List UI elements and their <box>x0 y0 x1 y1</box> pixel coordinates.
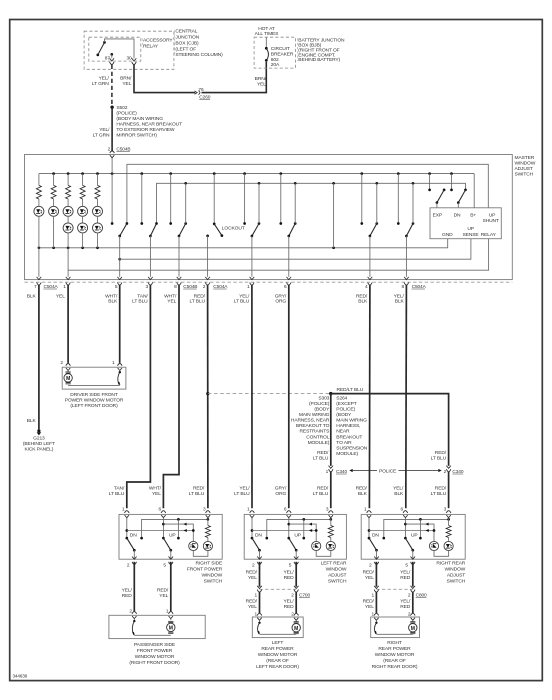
svg-text:5: 5 <box>289 563 292 569</box>
passenger side front power window motor wire YEL//RED left <box>133 562 135 612</box>
right side front power window switch led bottom link <box>193 551 208 557</box>
label GRY/ORG lower <box>275 485 287 497</box>
diagram number 344638 <box>13 674 28 679</box>
svg-text:ORG: ORG <box>275 298 286 304</box>
wire TAN/LT BLU with jog <box>127 285 151 509</box>
label BLK upper <box>27 293 37 299</box>
right side front power window switch box <box>119 514 222 559</box>
svg-text:BRN/: BRN/ <box>120 75 132 81</box>
right rear power window motor breaker arc <box>374 622 377 635</box>
right rear window adjust switch led bottom link <box>434 551 449 557</box>
circuit breaker label <box>271 46 294 68</box>
circuit breaker 602 20A <box>265 37 269 62</box>
svg-text:SENSE: SENSE <box>463 232 480 238</box>
svg-text:RED: RED <box>284 575 295 581</box>
svg-text:BLK: BLK <box>358 491 368 497</box>
svg-text:SHUNT: SHUNT <box>483 218 499 224</box>
label BRN/YEL left <box>120 75 132 87</box>
label 76 C260 <box>198 87 210 101</box>
left rear power window motor M symbol <box>292 622 300 634</box>
right rear power window motor label left lower <box>363 599 375 611</box>
svg-text:BEHIND BATTERY): BEHIND BATTERY) <box>298 57 340 63</box>
svg-text:G213: G213 <box>33 435 45 441</box>
svg-text:BREAKOUT TO: BREAKOUT TO <box>296 423 330 429</box>
svg-text:S303: S303 <box>318 395 329 401</box>
svg-text:(POLICE): (POLICE) <box>116 110 137 116</box>
svg-text:JUNCTION: JUNCTION <box>175 35 199 41</box>
svg-text:5: 5 <box>115 284 118 290</box>
wire YEL/BLK <box>405 285 408 509</box>
svg-text:TAN/: TAN/ <box>114 485 125 491</box>
right side front power window switch feed line A <box>140 518 209 539</box>
svg-text:M: M <box>66 376 70 382</box>
svg-text:YEL/: YEL/ <box>400 570 411 576</box>
wire BLK to ground <box>38 285 40 430</box>
label WHT/BLK <box>105 293 118 304</box>
svg-text:LT BLU: LT BLU <box>313 491 329 497</box>
wire YEL to driver motor <box>67 285 69 363</box>
left rear power window motor wire lower right <box>295 592 297 613</box>
svg-text:YEL/: YEL/ <box>99 127 110 133</box>
svg-text:TO AIR: TO AIR <box>336 440 352 446</box>
svg-text:2: 2 <box>291 593 294 599</box>
svg-text:SWITCH: SWITCH <box>447 578 466 584</box>
svg-text:YEL: YEL <box>365 604 374 610</box>
svg-text:LT BLU: LT BLU <box>313 455 329 461</box>
relay common wire to pin 30 <box>105 39 135 58</box>
left rear window adjust switch UP label <box>294 532 301 538</box>
illumination LED row2 col5 <box>93 223 103 248</box>
svg-text:1: 1 <box>122 506 125 512</box>
left rear window adjust switch pin 1 entry <box>247 506 254 519</box>
svg-text:WINDOW: WINDOW <box>326 567 347 573</box>
right rear power window motor label right upper <box>400 570 411 582</box>
svg-text:LT BLU: LT BLU <box>431 455 447 461</box>
illumination LED row2 col4 <box>78 223 88 248</box>
right side front power window switch pin 1 entry <box>122 506 129 519</box>
G213 label <box>23 435 55 452</box>
svg-text:CIRCUIT: CIRCUIT <box>271 46 290 52</box>
svg-text:YEL: YEL <box>248 575 257 581</box>
svg-text:UP: UP <box>489 212 496 218</box>
master switch - left rear down (pin 6) <box>279 174 296 277</box>
central junction box CJB (dashed) <box>84 31 174 69</box>
svg-text:MODULE): MODULE) <box>308 440 330 446</box>
svg-text:3: 3 <box>146 284 149 290</box>
wire RED/LT BLU to right rear switch <box>448 472 450 508</box>
label BLK lower <box>27 418 37 424</box>
svg-text:LT BLU: LT BLU <box>109 491 125 497</box>
label RED/LT BLU lower <box>189 485 205 497</box>
svg-text:RESTRAINTS: RESTRAINTS <box>300 429 331 435</box>
illumination resistor 2 <box>51 174 56 207</box>
svg-text:FRONT POWER: FRONT POWER <box>137 648 173 654</box>
svg-text:LT GRN: LT GRN <box>93 133 110 139</box>
right rear window adjust switch dn switch <box>368 518 378 559</box>
svg-text:YEL/: YEL/ <box>239 485 250 491</box>
wire bus A to B+ pin <box>473 174 475 208</box>
svg-text:(LEFT FRONT DOOR): (LEFT FRONT DOOR) <box>70 403 118 409</box>
svg-text:YEL: YEL <box>152 491 161 497</box>
svg-text:KICK PANEL): KICK PANEL) <box>25 447 54 453</box>
svg-text:RED/: RED/ <box>363 599 375 605</box>
left rear power window motor wire RED//YEL upper left <box>259 562 261 587</box>
master switch - left rear up (pin 1) <box>243 174 260 277</box>
master connector pin 4 at x=369.9 <box>365 277 372 290</box>
right rear power window motor label right lower <box>400 599 411 611</box>
driver motor label <box>65 392 124 409</box>
svg-text:ADJUST: ADJUST <box>447 572 465 578</box>
svg-text:MIRROR SWITCH): MIRROR SWITCH) <box>116 132 157 138</box>
svg-text:REAR POWER: REAR POWER <box>378 646 411 652</box>
svg-text:4: 4 <box>365 284 368 290</box>
svg-text:(REAR OF: (REAR OF <box>266 658 289 664</box>
label WHT/YEL lower <box>149 485 162 497</box>
right rear power window motor label left upper <box>363 570 375 582</box>
left rear window adjust switch resistor <box>328 518 333 541</box>
svg-text:YEL: YEL <box>248 604 257 610</box>
passenger side front power window motor box <box>109 615 205 638</box>
svg-text:WINDOW: WINDOW <box>515 161 536 167</box>
svg-text:2: 2 <box>369 563 372 569</box>
label YEL/LT BLU lower <box>234 485 250 497</box>
svg-text:BRN/: BRN/ <box>255 76 267 82</box>
master connector pin 1 at x=251.9 <box>247 277 254 290</box>
label YEL/LT BLU upper <box>234 293 250 304</box>
splice junction on RED/LT BLU <box>206 392 209 395</box>
label YEL/LT GRN <box>92 75 110 87</box>
wire GRY/ORG <box>288 285 290 509</box>
left rear window adjust switch pin 3 entry <box>326 506 333 519</box>
svg-text:30: 30 <box>126 55 132 61</box>
wire from bus C to pin 1 (YEL) <box>67 248 69 277</box>
right rear power window motor inline connector C800 dashed line <box>376 588 412 590</box>
illumination resistor 3 <box>66 174 71 207</box>
svg-text:3: 3 <box>444 506 447 512</box>
wire YEL/LT GRN from S502 to master switch <box>111 107 113 151</box>
svg-text:LT BLU: LT BLU <box>234 298 250 304</box>
master switch - passenger window up (pin 3) <box>140 174 157 277</box>
svg-text:WINDOW MOTOR: WINDOW MOTOR <box>135 654 175 660</box>
label RED/BLK upper <box>356 293 368 304</box>
right rear power window motor connector C800 pin 2 <box>408 586 427 599</box>
right rear window adjust switch led feed line C <box>369 529 435 532</box>
svg-text:UP: UP <box>411 532 418 538</box>
svg-text:FRONT POWER: FRONT POWER <box>187 567 223 573</box>
passenger side front power window motor wire RED//YEL right <box>170 562 172 612</box>
right rear power window motor wire lower right <box>412 592 414 613</box>
master switch - right rear up (pin 4) <box>360 174 378 277</box>
svg-text:LT BLU: LT BLU <box>189 298 205 304</box>
left rear window adjust switch led bottom link <box>316 551 331 557</box>
dashed police link wire <box>208 393 331 395</box>
driver motor internal bottom wire <box>68 385 120 387</box>
right rear window adjust switch pin 1 entry <box>364 506 371 519</box>
right rear power window motor label <box>372 640 418 670</box>
passenger side front power window motor label left <box>122 588 133 600</box>
label WHT/YEL upper <box>164 293 177 304</box>
left rear window adjust switch up contact feed <box>302 519 305 539</box>
right side front power window switch UP label <box>169 532 176 538</box>
right rear power window motor connector C800 pin 1 <box>371 586 378 599</box>
illumination resistor 5 <box>95 174 100 207</box>
svg-text:SWITCH: SWITCH <box>515 172 534 178</box>
right rear window adjust switch name label <box>436 561 465 585</box>
master connector pin 8 at x=406.4 <box>402 277 409 290</box>
svg-text:ACCESSORY: ACCESSORY <box>143 38 173 44</box>
right rear power window motor wire RED//YEL upper left <box>375 562 377 587</box>
right rear window adjust switch feed line A <box>382 518 450 539</box>
right rear window adjust switch pin 3 entry <box>444 506 451 519</box>
svg-text:YEL: YEL <box>365 575 374 581</box>
svg-text:SWITCH: SWITCH <box>328 578 347 584</box>
master connector pin 3 at x=150.4 <box>146 277 153 290</box>
svg-text:RIGHT SIDE: RIGHT SIDE <box>195 561 223 567</box>
accessory relay label <box>142 38 173 50</box>
svg-text:2: 2 <box>291 611 294 617</box>
svg-text:LEFT: LEFT <box>272 640 284 646</box>
svg-text:ORG: ORG <box>275 491 286 497</box>
left rear window adjust switch DN label <box>255 532 262 538</box>
label YEL/LT GRN lower <box>93 127 111 139</box>
pin 87 connector at CJB edge <box>110 58 115 64</box>
right rear power window motor wire lower left <box>375 592 377 613</box>
svg-text:WINDOW MOTOR: WINDOW MOTOR <box>375 652 415 658</box>
connector name C504B <box>183 284 197 290</box>
left rear window adjust switch led feed line B <box>289 523 316 542</box>
svg-text:BOX (CJB): BOX (CJB) <box>175 40 199 46</box>
battery junction box BJB (dashed) <box>254 37 295 68</box>
svg-text:NEAR: NEAR <box>336 429 350 435</box>
left rear power window motor wire YEL//RED upper right <box>295 562 297 587</box>
right side front power window switch led feed line C <box>127 529 195 532</box>
svg-text:RED/: RED/ <box>435 450 447 456</box>
right rear power window motor motor pin 2 entry <box>408 611 415 621</box>
driver motor M symbol <box>64 372 72 384</box>
svg-text:DRIVER SIDE FRONT: DRIVER SIDE FRONT <box>70 392 118 398</box>
passenger side front power window motor label right <box>157 588 169 600</box>
svg-text:STEERING COLUMN): STEERING COLUMN) <box>175 52 223 58</box>
svg-text:2: 2 <box>60 360 63 366</box>
illumination return bus (bus C) <box>38 239 448 249</box>
svg-text:TO EXTERIOR REARVIEW: TO EXTERIOR REARVIEW <box>116 127 175 133</box>
svg-text:(BEHIND LEFT: (BEHIND LEFT <box>23 441 55 447</box>
svg-text:1: 1 <box>371 593 374 599</box>
driver motor pin 2 entry <box>60 360 70 372</box>
svg-text:YEL: YEL <box>122 81 131 87</box>
svg-text:20A: 20A <box>271 62 280 68</box>
svg-text:2: 2 <box>252 563 255 569</box>
left rear window adjust switch dn switch <box>251 518 261 559</box>
pin 87 label <box>105 55 111 61</box>
svg-text:RED/: RED/ <box>317 450 329 456</box>
svg-text:M: M <box>294 626 298 632</box>
CJB label text <box>175 29 224 59</box>
connector C340 pin 1 <box>326 466 348 475</box>
svg-text:LEFT REAR DOOR): LEFT REAR DOOR) <box>256 664 299 670</box>
right rear window adjust switch illumination LED <box>444 541 453 550</box>
svg-text:(BODY: (BODY <box>314 407 330 413</box>
right side front power window switch pin 6 entry <box>158 506 165 519</box>
svg-text:(LEFT OF: (LEFT OF <box>175 46 196 52</box>
svg-text:YEL/: YEL/ <box>99 75 110 81</box>
up shunt relay box <box>430 208 501 239</box>
svg-text:GND: GND <box>442 232 453 238</box>
label RED/LT BLU left of C340 <box>313 450 329 462</box>
right rear window adjust switch indicator LED <box>429 541 438 550</box>
relay pin 87 contact <box>110 53 113 58</box>
wire WHT/YEL with jog <box>163 285 179 509</box>
svg-text:POLICE: POLICE <box>379 468 397 474</box>
svg-text:DN: DN <box>372 532 379 538</box>
wire WHT/BLK to driver motor <box>119 285 121 363</box>
connector name C504A left <box>44 284 59 290</box>
svg-text:LT BLU: LT BLU <box>234 491 250 497</box>
up shunt relay dn switch <box>450 174 467 208</box>
left rear power window motor breaker arc <box>257 622 260 635</box>
label BRN/YEL right <box>255 76 267 88</box>
right rear power window motor internal bottom wire <box>376 633 412 635</box>
svg-text:YEL: YEL <box>159 593 168 599</box>
svg-text:2: 2 <box>127 563 130 569</box>
label YEL/BLK lower <box>393 485 404 497</box>
relay contact arm <box>96 41 105 56</box>
svg-text:602: 602 <box>271 57 279 63</box>
right rear window adjust switch pin 6 entry <box>400 506 407 519</box>
svg-text:M: M <box>411 626 415 632</box>
splice S502 <box>110 106 113 109</box>
master switch - driver window (pin 5) <box>111 159 129 277</box>
svg-text:GRY/: GRY/ <box>275 485 287 491</box>
right rear window adjust switch pin 2 exit <box>369 557 379 569</box>
wire BRN/YEL from relay 30 to C260 to circuit breaker <box>134 62 266 93</box>
svg-text:YEL/: YEL/ <box>393 485 404 491</box>
svg-text:S502: S502 <box>116 105 127 111</box>
illumination LED row1 col2 <box>49 206 59 248</box>
svg-text:RED/: RED/ <box>193 485 205 491</box>
right rear window adjust switch up contact feed <box>419 519 422 539</box>
svg-text:YEL: YEL <box>167 298 176 304</box>
left rear window adjust switch indicator LED <box>312 541 321 550</box>
right side front power window switch pin 2 exit <box>127 557 137 569</box>
right rear window adjust switch up switch <box>404 518 414 559</box>
svg-text:CENTRAL: CENTRAL <box>175 29 197 35</box>
master switch - right rear down (pin 8) <box>397 174 414 277</box>
lockout switch <box>206 174 223 277</box>
svg-text:RED: RED <box>284 604 295 610</box>
S264 description <box>336 395 367 457</box>
right side front power window switch pin 5 exit <box>163 557 173 569</box>
svg-text:ADJUST: ADJUST <box>515 166 533 172</box>
svg-text:RELAY: RELAY <box>143 43 159 49</box>
master connector pin 2 at x=207.6 <box>203 277 210 290</box>
illumination LED row1 col1 <box>34 206 44 248</box>
svg-text:2: 2 <box>408 611 411 617</box>
bus B to bus C link <box>333 183 335 248</box>
left rear power window motor inline connector C700 dashed line <box>260 588 297 590</box>
svg-text:1: 1 <box>371 611 374 617</box>
svg-text:HARNESS, NEAR BREAKOUT: HARNESS, NEAR BREAKOUT <box>116 121 182 127</box>
left rear window adjust switch led feed line C <box>252 529 318 532</box>
illumination LED row1 col4 <box>78 206 88 223</box>
right side front power window switch up contact feed <box>177 519 180 539</box>
svg-text:1: 1 <box>364 506 367 512</box>
svg-text:YEL/: YEL/ <box>283 599 294 605</box>
right rear window adjust switch resistor <box>446 518 451 541</box>
svg-text:(EXCEPT: (EXCEPT <box>336 401 356 407</box>
accessory relay box (dashed) <box>89 37 141 61</box>
left rear power window motor label left lower <box>246 599 258 611</box>
left rear window adjust switch name label <box>321 561 347 585</box>
wire YEL/LT GRN dashed (police) from relay 87 <box>111 65 113 106</box>
svg-text:RIGHT: RIGHT <box>387 640 402 646</box>
left rear power window motor label right upper <box>283 570 294 582</box>
svg-text:DN: DN <box>130 532 137 538</box>
right rear window adjust switch box <box>361 514 465 559</box>
master connector pin 8 at x=179.0 <box>174 277 181 290</box>
relay line <box>68 239 489 271</box>
illumination LED row2 col3 <box>63 223 73 248</box>
illumination resistor 4 <box>80 174 85 207</box>
pin 30 label <box>126 55 132 61</box>
svg-text:WHT/: WHT/ <box>149 485 162 491</box>
svg-text:6: 6 <box>284 284 287 290</box>
wire RED/LT BLU center <box>207 285 209 509</box>
wire YEL/LT BLU <box>251 285 253 509</box>
right side front power window switch indicator LED <box>189 541 198 550</box>
svg-text:SWITCH: SWITCH <box>204 578 223 584</box>
svg-text:BLK: BLK <box>27 418 37 424</box>
pin 30 connector at CJB edge <box>132 58 137 64</box>
ground bus (bus B) <box>157 182 466 224</box>
connector C504B pin 2 entry <box>108 147 131 160</box>
passenger side front power window motor motor pin 2 entry <box>129 609 136 621</box>
svg-text:YEL/: YEL/ <box>400 599 411 605</box>
label YEL <box>56 293 65 299</box>
svg-text:RED: RED <box>122 593 133 599</box>
left rear window adjust switch illumination LED <box>326 541 335 550</box>
right side front power window switch resistor <box>205 518 210 541</box>
label RED/LT BLU lower left-rear <box>313 485 329 497</box>
svg-text:(RIGHT FRONT DOOR): (RIGHT FRONT DOOR) <box>129 660 180 666</box>
wire RED/LT BLU from splice to right branch <box>331 394 449 466</box>
right rear power window motor motor pin 1 entry <box>371 611 378 621</box>
svg-text:1: 1 <box>255 593 258 599</box>
svg-text:LT BLU: LT BLU <box>132 298 148 304</box>
svg-text:REAR POWER: REAR POWER <box>261 646 294 652</box>
passenger side front power window motor internal bottom wire <box>134 634 171 636</box>
lockout label <box>222 225 245 231</box>
svg-text:2: 2 <box>203 284 206 290</box>
label GRY/ORG upper <box>275 293 287 304</box>
svg-text:(BODY: (BODY <box>336 412 352 418</box>
wire RED/LT BLU to left rear switch <box>330 472 332 508</box>
svg-text:1: 1 <box>255 611 258 617</box>
left rear window adjust switch up switch <box>287 518 297 559</box>
svg-text:RELAY: RELAY <box>481 232 497 238</box>
left rear power window motor motor pin 2 entry <box>291 611 298 621</box>
left rear power window motor connector C700 pin 2 <box>291 586 310 599</box>
svg-text:M: M <box>169 625 173 631</box>
left rear power window motor wire lower left <box>259 592 261 613</box>
S303 description <box>291 395 330 445</box>
svg-text:RED/: RED/ <box>246 599 258 605</box>
left rear window adjust switch pin 5 exit <box>289 557 299 569</box>
svg-text:BLK: BLK <box>395 298 405 304</box>
svg-text:DN: DN <box>454 212 461 218</box>
connector C340 pin 2 <box>444 466 464 475</box>
master switch connector row dashed line <box>25 281 513 283</box>
